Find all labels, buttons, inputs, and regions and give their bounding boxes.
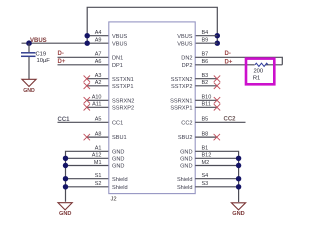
svg-text:VBUS: VBUS bbox=[177, 34, 193, 40]
svg-text:GND: GND bbox=[232, 211, 244, 217]
no-connect X B10 bbox=[214, 97, 220, 103]
svg-text:VBUS: VBUS bbox=[177, 41, 193, 47]
no-connect X A11 bbox=[84, 104, 90, 110]
no-connect X A2 bbox=[84, 83, 90, 89]
svg-text:Shield: Shield bbox=[112, 185, 128, 191]
svg-text:SSRXP1: SSRXP1 bbox=[170, 105, 192, 111]
wire A10 stub bbox=[87, 99, 109, 101]
svg-text:B2: B2 bbox=[202, 80, 209, 86]
wire B10 stub bbox=[195, 99, 217, 101]
wire VBUS left horizontal bbox=[22, 42, 109, 44]
svg-text:S2: S2 bbox=[95, 181, 102, 187]
svg-text:Shield: Shield bbox=[177, 185, 193, 191]
junction dot B9 bbox=[215, 41, 220, 46]
svg-text:D-: D- bbox=[58, 51, 64, 57]
svg-text:A4: A4 bbox=[95, 30, 102, 36]
wire CC1 bbox=[58, 121, 109, 123]
svg-text:A1: A1 bbox=[95, 146, 102, 152]
wire VBUS top rail bbox=[87, 7, 217, 43]
svg-text:C19: C19 bbox=[36, 51, 47, 57]
svg-text:SSRXN1: SSRXN1 bbox=[170, 98, 192, 104]
wire A4 stub bbox=[87, 35, 109, 37]
ground GND top-left bbox=[22, 79, 36, 94]
svg-text:D+: D+ bbox=[58, 59, 66, 65]
svg-text:B5: B5 bbox=[202, 117, 209, 123]
svg-text:A9: A9 bbox=[95, 38, 102, 44]
svg-text:VBUS: VBUS bbox=[30, 38, 47, 44]
svg-text:SSRXP2: SSRXP2 bbox=[112, 105, 134, 111]
svg-text:A8: A8 bbox=[95, 131, 102, 137]
svg-text:SSRXN2: SSRXN2 bbox=[112, 98, 134, 104]
ground GND bottom-right bbox=[231, 203, 245, 217]
svg-text:B10: B10 bbox=[202, 95, 212, 101]
wire DN2 to loop bbox=[195, 57, 282, 65]
svg-text:B7: B7 bbox=[202, 52, 209, 58]
resistor R1 bbox=[253, 63, 268, 81]
svg-text:SSTXP2: SSTXP2 bbox=[171, 84, 192, 90]
svg-text:SSTXP1: SSTXP1 bbox=[112, 84, 133, 90]
wire S4 bbox=[195, 178, 238, 180]
junction dot B4 bbox=[215, 33, 220, 38]
wire A11 stub bbox=[87, 106, 109, 108]
svg-text:GND: GND bbox=[180, 164, 192, 170]
no-connect X A3 bbox=[84, 76, 90, 82]
junction dot S1 bbox=[63, 176, 68, 181]
svg-text:GND: GND bbox=[23, 88, 35, 94]
svg-text:CC2: CC2 bbox=[181, 120, 192, 126]
wire B9 stub bbox=[195, 42, 217, 44]
svg-text:A12: A12 bbox=[92, 153, 102, 159]
svg-text:200: 200 bbox=[253, 69, 263, 75]
junction dot M2 bbox=[236, 163, 241, 168]
junction dot A12 bbox=[63, 156, 68, 161]
svg-text:GND: GND bbox=[59, 211, 71, 217]
no-connect X B8 bbox=[214, 134, 220, 140]
junction dot S2 bbox=[63, 184, 68, 189]
wire S2 bbox=[66, 186, 109, 188]
pin numbers right bbox=[202, 30, 212, 187]
svg-text:Shield: Shield bbox=[177, 177, 193, 183]
wire GND bus right bbox=[195, 151, 238, 202]
junction dot S3 bbox=[236, 184, 241, 189]
svg-text:J2: J2 bbox=[111, 197, 117, 203]
wire A12 bbox=[66, 157, 109, 159]
svg-text:B9: B9 bbox=[202, 38, 209, 44]
svg-text:SSTXN1: SSTXN1 bbox=[112, 77, 134, 83]
svg-text:A7: A7 bbox=[95, 52, 102, 58]
junction dot VBUS-C19 bbox=[26, 40, 32, 46]
wire A8 stub bbox=[87, 136, 109, 138]
junction dot S4 bbox=[236, 176, 241, 181]
wire A3 stub bbox=[87, 78, 109, 80]
svg-text:DP1: DP1 bbox=[112, 63, 123, 69]
svg-text:R1: R1 bbox=[253, 76, 260, 82]
selection box around R1 bbox=[246, 59, 274, 85]
svg-text:VBUS: VBUS bbox=[112, 41, 128, 47]
no-connect X B2 bbox=[214, 83, 220, 89]
wire B3 stub bbox=[195, 78, 217, 80]
svg-text:A5: A5 bbox=[95, 117, 102, 123]
svg-text:GND: GND bbox=[112, 164, 124, 170]
wire M1 bbox=[66, 165, 109, 167]
svg-text:B6: B6 bbox=[202, 59, 209, 65]
wire M2 bbox=[195, 165, 238, 167]
svg-text:GND: GND bbox=[180, 149, 192, 155]
connector J2 body bbox=[109, 22, 195, 194]
svg-text:GND: GND bbox=[112, 149, 124, 155]
svg-text:A3: A3 bbox=[95, 73, 102, 79]
svg-text:A6: A6 bbox=[95, 59, 102, 65]
wire B2 stub bbox=[195, 85, 217, 87]
wire DP2 to resistor bbox=[195, 64, 282, 66]
capacitor C19 bbox=[21, 43, 50, 79]
svg-text:GND: GND bbox=[180, 156, 192, 162]
pin numbers left bbox=[92, 30, 102, 187]
wire A2 stub bbox=[87, 85, 109, 87]
svg-text:SSTXN2: SSTXN2 bbox=[171, 77, 193, 83]
svg-text:CC1: CC1 bbox=[112, 120, 123, 126]
no-connect X A10 bbox=[84, 97, 90, 103]
svg-text:10µF: 10µF bbox=[37, 58, 51, 64]
svg-text:CC2: CC2 bbox=[224, 117, 237, 123]
svg-text:A11: A11 bbox=[92, 102, 101, 108]
wire B11 stub bbox=[195, 106, 217, 108]
wire B12 bbox=[195, 157, 238, 159]
no-connect X A8 bbox=[84, 134, 90, 140]
svg-text:B4: B4 bbox=[202, 30, 209, 36]
svg-text:A10: A10 bbox=[92, 95, 102, 101]
svg-text:SBU1: SBU1 bbox=[112, 135, 127, 141]
wire DP1 bbox=[58, 64, 109, 66]
svg-text:B11: B11 bbox=[202, 102, 211, 108]
wire S1 bbox=[66, 178, 109, 180]
wire S3 bbox=[195, 186, 238, 188]
wire B4 stub bbox=[195, 35, 217, 37]
ground GND bottom-left bbox=[58, 203, 72, 217]
pin names left column bbox=[112, 34, 134, 191]
no-connect X B11 bbox=[214, 104, 220, 110]
wire DN1 bbox=[58, 56, 109, 58]
junction dot B12 bbox=[236, 156, 241, 161]
svg-text:DP2: DP2 bbox=[182, 63, 193, 69]
wire GND bus left bbox=[66, 151, 109, 202]
svg-text:DN1: DN1 bbox=[112, 55, 123, 61]
svg-text:VBUS: VBUS bbox=[112, 34, 128, 40]
no-connect X B3 bbox=[214, 76, 220, 82]
junction dot A4 bbox=[85, 33, 90, 38]
svg-text:S1: S1 bbox=[95, 173, 102, 179]
svg-text:A2: A2 bbox=[95, 80, 102, 86]
svg-text:Shield: Shield bbox=[112, 177, 128, 183]
pin names right column bbox=[170, 34, 193, 191]
svg-text:SBU2: SBU2 bbox=[178, 135, 193, 141]
svg-text:M1: M1 bbox=[94, 160, 102, 166]
svg-text:GND: GND bbox=[112, 156, 124, 162]
junction dot M1 bbox=[63, 163, 68, 168]
junction dot A9 bbox=[85, 41, 90, 46]
wire CC2 bbox=[195, 121, 245, 123]
svg-text:DN2: DN2 bbox=[181, 55, 192, 61]
svg-text:D-: D- bbox=[225, 51, 231, 57]
wire B8 stub bbox=[195, 136, 217, 138]
